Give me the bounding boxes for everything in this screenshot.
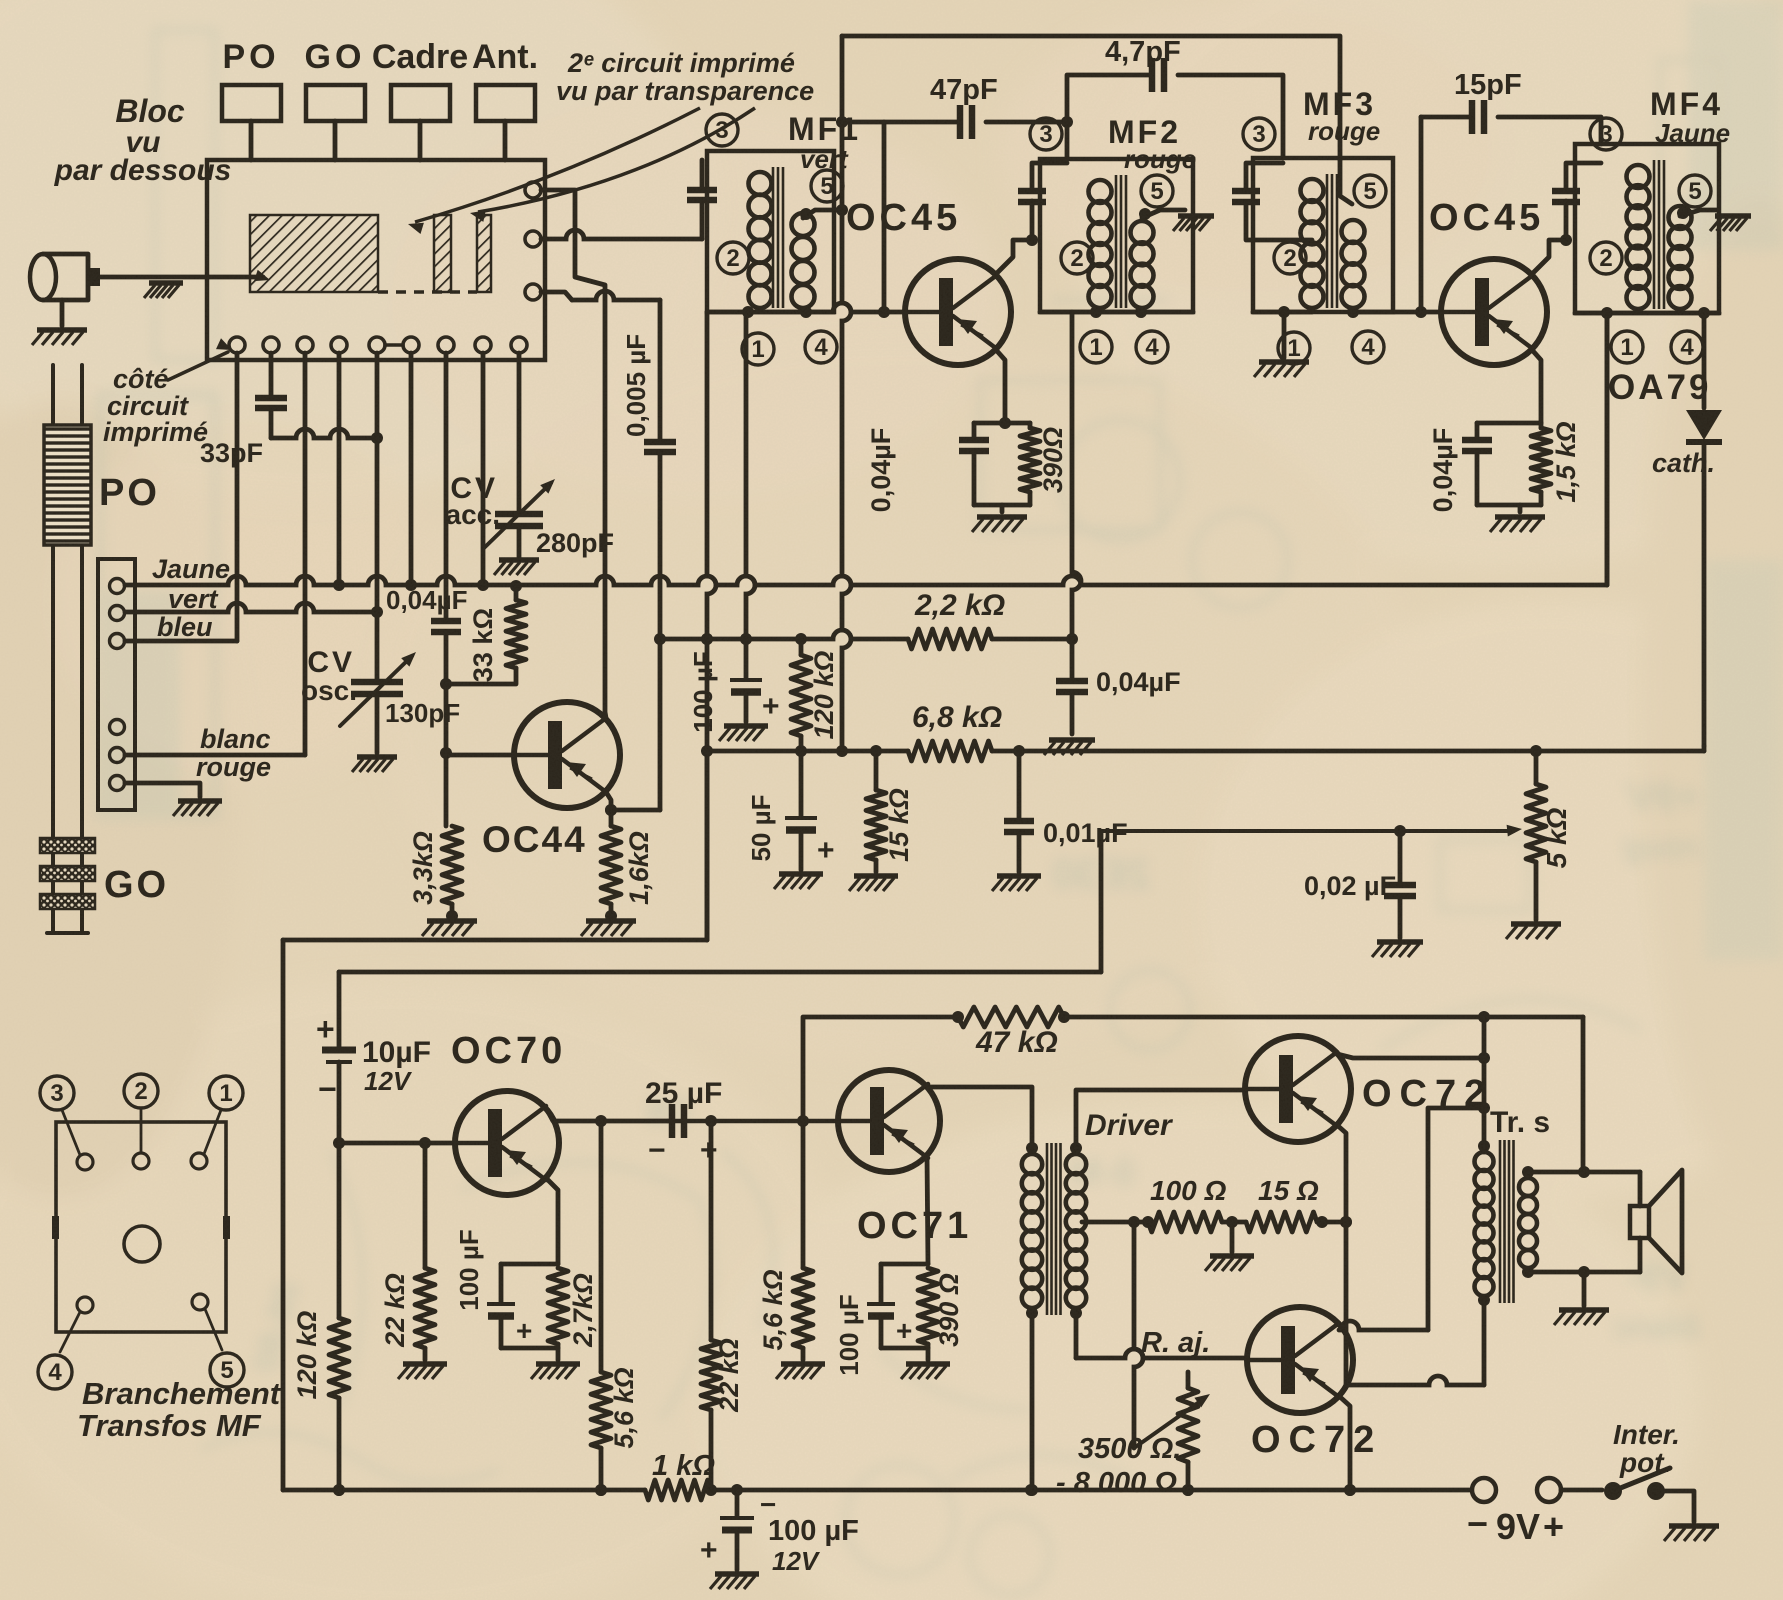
switch interrupteur: [1561, 1468, 1694, 1522]
diode OA79: [1686, 313, 1722, 746]
capacitor 0,04uF oscillator: [431, 621, 461, 632]
OC71 emitter node: [867, 1264, 938, 1360]
bias mid node: [1222, 1216, 1246, 1252]
MF1 pin1 drop to B2: [740, 312, 755, 645]
wire bleu: [125, 639, 237, 644]
pin5 circled MF2: [1141, 175, 1173, 207]
label 4,7pF: [1105, 36, 1181, 68]
label Ant. terminal: [472, 38, 538, 76]
resistor 1k: [645, 1480, 711, 1500]
label MF1: [788, 111, 861, 147]
speaker: [1630, 1170, 1682, 1273]
47k line right: [1058, 1011, 1583, 1023]
MF4 cap bottom wire: [1560, 201, 1572, 246]
label 47pF: [930, 74, 998, 106]
transistor OC70: [455, 1091, 559, 1195]
resistor 120k: [791, 639, 811, 751]
bottom rail left segment: [283, 1484, 645, 1496]
label 12V 10uF: [364, 1066, 413, 1096]
wire stem PO box to bloc: [249, 121, 254, 160]
label 6,8k: [912, 701, 1002, 734]
inset circled 5: [210, 1353, 244, 1387]
label Bloc vu par dessous: [54, 93, 232, 187]
ground 100uF: [719, 726, 768, 741]
label 390 OC71: [934, 1273, 964, 1347]
label 5,6k series: [609, 1367, 639, 1448]
wire vert: [125, 603, 383, 618]
ferrite rod: [47, 365, 88, 933]
47pF drop to base node: [882, 122, 887, 312]
coil GO bar 1: [40, 838, 95, 853]
label -9V+: [1467, 1503, 1564, 1547]
label 100uF OC70: [454, 1229, 484, 1310]
transformer MF4 box: [1575, 144, 1719, 313]
label MF3 rouge: [1308, 116, 1380, 146]
MF3 cap bottom wire: [1246, 202, 1312, 240]
ground 1,6k: [581, 921, 636, 936]
capacitor 0,04uF decoupling: [1056, 639, 1088, 734]
transistor OC44: [514, 702, 620, 808]
pot wiper arrow: [1101, 825, 1522, 837]
label 8000: [1056, 1467, 1177, 1499]
label jaune: [152, 554, 230, 584]
ground 15k: [849, 876, 898, 891]
MF1 cap top wire: [700, 160, 705, 189]
bloc rectangle (vu par dessous): [207, 160, 545, 360]
OC45-2 emitter node: [1462, 423, 1551, 512]
resistor 5,6k bias OC71: [793, 1121, 813, 1360]
transformer MF3 primary coil: [1301, 179, 1324, 308]
label 0,04uF OC45-1: [866, 428, 896, 513]
label 0,04uF OC45-2: [1428, 428, 1458, 513]
wire t3 down to blanc: [303, 353, 308, 755]
ground MF3 pin1: [1254, 362, 1309, 377]
resistor 15ohm: [1246, 1212, 1317, 1232]
transformer Tr.s core: [1500, 1140, 1514, 1303]
label 100uF OC71: [834, 1294, 864, 1375]
label Tr.s: [1490, 1106, 1550, 1139]
capacitor 25uF: [672, 1104, 684, 1138]
resistor 15k: [866, 745, 886, 872]
transformer Driver primary: [1022, 1142, 1042, 1319]
OC45-1 collector wire: [997, 240, 1032, 273]
R.aj drop: [1134, 1222, 1143, 1448]
ground 5,6k bias: [776, 1364, 825, 1379]
transistor OC71: [838, 1070, 940, 1172]
transformer Tr.s secondary: [1519, 1166, 1537, 1278]
label GO coil: [104, 864, 169, 906]
15pF line: [1421, 117, 1601, 144]
label MF4: [1650, 86, 1723, 122]
wire OC44 collector to bloc: [541, 190, 606, 718]
label OC71: [857, 1205, 972, 1247]
OC70 emitter wire: [546, 1178, 558, 1264]
bloc right terminals: [525, 182, 541, 300]
OC72b collector wire: [1339, 1102, 1490, 1330]
transformer MF4 core: [1654, 160, 1664, 309]
4,7pF line: [1067, 75, 1283, 158]
wire t4 down to jaune bus: [333, 353, 345, 591]
capacitor 50uF electrolytic: [785, 751, 817, 870]
label CV osc: [301, 646, 357, 706]
label 130pF: [385, 698, 460, 728]
pin1 circled MF2: [1080, 331, 1112, 363]
wire t9 down: [517, 353, 522, 513]
connector pins: [110, 579, 125, 791]
label 50uF: [746, 794, 776, 861]
wire stem GO box to bloc: [333, 121, 338, 160]
transformer Driver core: [1047, 1143, 1061, 1315]
bus B3 right segment: [992, 745, 1704, 757]
supply line1: [283, 938, 707, 943]
label Cadre terminal: [372, 38, 468, 76]
pin4 circled MF3: [1352, 331, 1384, 363]
bus jaune AVC: [125, 576, 1607, 585]
label 0,005uF: [621, 334, 651, 437]
capacitor CV osc 130pF: [340, 652, 416, 753]
label 0,01uF: [1043, 818, 1128, 848]
bus B2 right segment: [992, 633, 1078, 645]
label OC45 second: [1429, 197, 1544, 239]
resistor 22k bias OC70: [415, 1137, 435, 1360]
minus 25uF: [648, 1134, 666, 1167]
wire 33pF bus to t5: [271, 429, 383, 444]
wire t6 down to jaune bus: [405, 353, 417, 591]
label 15ohm: [1258, 1175, 1319, 1206]
capacitor CV acc 280pF: [484, 479, 555, 558]
label cath.: [1652, 448, 1715, 478]
label 100uF 12V: [768, 1515, 859, 1547]
label 1k: [652, 1450, 715, 1482]
label 100ohm: [1150, 1175, 1226, 1206]
rail drop x842 to B3: [836, 36, 851, 757]
hatched area 1 (circuit imprime): [250, 215, 378, 292]
ground under jack: [32, 330, 87, 345]
ground OC71 emitter: [901, 1364, 950, 1379]
label 2,7k: [568, 1273, 598, 1348]
ground speaker line: [1554, 1272, 1609, 1325]
MF3 rail to secondary top: [1340, 160, 1352, 204]
coil GO bar 2: [40, 866, 95, 881]
MF2 cap bottom wire: [1026, 201, 1038, 246]
label 3,3k: [408, 831, 438, 905]
15pF drop to OC45-2 base: [1415, 117, 1427, 318]
wire emitter node: [605, 804, 617, 816]
label 12V rail: [772, 1546, 821, 1576]
inset pin 2: [133, 1110, 149, 1169]
inset pin 3: [62, 1110, 93, 1170]
capacitor 4,7pF: [1152, 58, 1164, 92]
label 25uF: [645, 1077, 722, 1110]
MF3 bottom line right to OC45-2: [1347, 306, 1440, 318]
MF2 pin5 ground: [1173, 216, 1214, 231]
transformer MF1 core: [773, 167, 783, 308]
label GO terminal: [305, 38, 366, 76]
label 1,5k: [1551, 421, 1581, 502]
MF2 bottom line: [1040, 306, 1193, 318]
label 22k OC70: [380, 1273, 410, 1348]
resistor 33k: [446, 580, 526, 684]
label 390ohm: [1038, 427, 1068, 493]
25uF line: [595, 1115, 838, 1127]
plus 10uF: [316, 1011, 335, 1047]
resistor 22k series: [701, 1121, 721, 1496]
capacitor 100uF 12V: [720, 1490, 754, 1570]
ground jack small: [144, 283, 183, 298]
OC72a emitter to Tr.s bottom: [1346, 1300, 1484, 1385]
ground 0,02uF: [1372, 942, 1423, 957]
OA79 to detector bus: [1702, 746, 1707, 751]
resistor 3,3k: [442, 826, 462, 922]
ground 0,01uF: [992, 876, 1041, 891]
label MF2 rouge: [1124, 144, 1196, 174]
OC70 base wire: [333, 1137, 455, 1149]
MF2 tuning capacitor: [1018, 191, 1046, 202]
pin2 circled MF4: [1590, 242, 1622, 274]
pin4 circled MF1: [805, 331, 837, 363]
ground 22k OC70: [398, 1364, 447, 1379]
transistor OC45 first: [905, 259, 1011, 365]
transistor OC45 second: [1441, 259, 1547, 365]
AF line2: [339, 970, 1101, 975]
label 22k series: [714, 1338, 744, 1413]
wire OC44 base: [446, 753, 513, 758]
label OC72 top: [1362, 1073, 1493, 1115]
label 5,6k bias: [758, 1269, 788, 1350]
capacitor 100uF electrolytic: [730, 639, 762, 722]
label OA79: [1608, 368, 1711, 407]
pin3 circled MF2: [1030, 118, 1062, 150]
pin2 circled MF1: [717, 242, 749, 274]
plus 25uF: [700, 1134, 718, 1167]
label blanc: [200, 724, 271, 754]
label 33k: [468, 608, 498, 682]
label OC44: [482, 819, 587, 860]
label PO terminal: [222, 38, 279, 76]
label 0,04uF decoupling: [1096, 667, 1181, 697]
pin4 circled MF2: [1136, 331, 1168, 363]
OC45-1 emitter wire: [997, 351, 1005, 423]
arrow cote to bloc corner: [168, 338, 232, 380]
inset circled 1: [209, 1076, 243, 1110]
wire t8 down to jaune bus: [477, 353, 489, 591]
transformer MF4 secondary coil: [1669, 206, 1692, 309]
resistor 47k: [958, 1007, 1064, 1027]
pin3 circled MF3: [1243, 118, 1275, 150]
label Inter pot: [1613, 1419, 1680, 1478]
resistor 1,6k: [601, 826, 621, 922]
top rail (OC45-1 neutralising): [842, 36, 1340, 160]
label MF2: [1108, 114, 1181, 150]
OC72a emitter wire: [1337, 1125, 1352, 1385]
ground switch: [1664, 1526, 1719, 1541]
wire stem Ant box to bloc: [503, 121, 508, 160]
wire t5 down to CV osc: [375, 353, 380, 681]
inset circled 3: [40, 1076, 74, 1110]
label vert: [168, 584, 219, 614]
transformer MF2 secondary coil: [1131, 221, 1154, 308]
inset pin 4: [60, 1297, 93, 1352]
OC70 emitter node: [487, 1264, 568, 1360]
MF1 box-left drop to B2/B3: [701, 312, 716, 940]
resistor 6,8k: [908, 741, 992, 761]
label MF1 vert: [800, 144, 849, 174]
label 0,02uF: [1304, 871, 1396, 901]
MF4 pin1 drop to jaune bus: [1605, 313, 1610, 585]
MF2 pin5 ground wire: [1139, 208, 1185, 220]
OC45-2 collector wire: [1533, 240, 1566, 273]
OC70 collector wire: [546, 1108, 668, 1121]
label 5k: [1541, 807, 1572, 868]
pin5 circled MF4: [1679, 175, 1711, 207]
Driver sec tap to bias: [1082, 1216, 1154, 1228]
inset side tab left: [52, 1216, 59, 1239]
pin1 circled MF1: [742, 333, 774, 365]
inset circled 2: [124, 1074, 158, 1108]
bias to emitter line: [1316, 1216, 1352, 1228]
label 2,2k: [914, 589, 1005, 622]
inset side tab right: [223, 1216, 230, 1239]
dashed line under hatch areas: [378, 290, 477, 294]
label R.aj: [1141, 1327, 1210, 1359]
ground 5k: [1506, 924, 1561, 939]
label 1,6k: [624, 831, 654, 905]
OC45-1 emitter node: [959, 417, 1040, 512]
ground OC45-2 emitter: [1490, 517, 1545, 532]
47k riser to speaker line: [1581, 1017, 1586, 1172]
MF4 pin5 ground: [1710, 216, 1751, 231]
OC45-2 emitter wire: [1533, 351, 1541, 423]
ground CV acc: [494, 560, 539, 575]
bus B2 left segment: [660, 630, 908, 645]
hatched area 3: [477, 215, 491, 292]
coil PO on rod: [44, 425, 91, 545]
ground 3,3k: [422, 921, 477, 936]
arrow to hatched area 1: [408, 108, 700, 234]
OC71 collector wire: [927, 1087, 1032, 1148]
B3 corner drop: [705, 751, 710, 940]
label 47k: [975, 1026, 1058, 1059]
capacitor 0,005uF: [611, 300, 676, 810]
ground 50uF: [774, 874, 823, 889]
transformer MF4 primary coil: [1627, 165, 1650, 309]
resistor 100ohm: [1148, 1212, 1222, 1232]
label 120k: [809, 651, 839, 740]
OC72b emitter wire: [1339, 1396, 1356, 1496]
inset box: [56, 1122, 226, 1332]
pin5 circled MF3: [1354, 175, 1386, 207]
transformer MF2 primary coil: [1089, 180, 1112, 308]
transformer MF3 secondary coil: [1342, 220, 1365, 308]
pin2 circled MF3: [1274, 242, 1306, 274]
transformer MF2 core: [1116, 175, 1126, 308]
transformer MF1 box: [707, 151, 834, 312]
47pF line: [842, 116, 1073, 159]
label OC45 first: [846, 197, 961, 239]
MF4 cap top wire: [1566, 163, 1601, 190]
pin4 circled MF4: [1671, 331, 1703, 363]
terminal box Ant: [476, 85, 535, 121]
Tr.s secondary top line: [1528, 1166, 1640, 1178]
Driver sec top to OC72a base: [1076, 1090, 1245, 1148]
bus B3 left segment: [707, 745, 908, 757]
ground CV osc: [352, 757, 397, 772]
label 100uF: [688, 651, 718, 732]
transformer MF3 box: [1253, 158, 1393, 312]
label 0,04uF osc: [386, 585, 467, 615]
battery terminal plus: [1537, 1478, 1561, 1502]
plus 100uF: [762, 690, 780, 723]
inset pin 5: [192, 1294, 222, 1350]
label 10uF: [362, 1036, 431, 1069]
OC71 emitter wire: [927, 1156, 928, 1264]
label 120k OC70: [292, 1311, 322, 1400]
label MF3: [1303, 86, 1376, 122]
ground 100uF 12V: [710, 1574, 759, 1589]
MF2 cap top wire: [1032, 163, 1067, 190]
ground rouge: [173, 801, 222, 816]
wire jack body down: [60, 300, 65, 326]
terminal box PO: [222, 85, 281, 121]
label bleu: [157, 612, 213, 642]
earpiece jack symbol: [30, 254, 100, 300]
bus jaune right riser: [1605, 313, 1610, 585]
MF3 cap top wire: [1246, 163, 1283, 190]
potentiometer 5k: [1526, 751, 1546, 920]
label Transfos MF: [77, 1408, 262, 1443]
transformer MF1 secondary coil: [792, 213, 815, 308]
MF1 tuning capacitor: [687, 190, 717, 200]
pin3 circled MF4: [1590, 118, 1622, 150]
label 33pF: [200, 438, 263, 468]
label 3500: [1078, 1433, 1181, 1465]
label Branchement: [82, 1376, 282, 1411]
resistor R.aj: [1178, 1372, 1198, 1496]
transformer MF2 box: [1040, 159, 1193, 312]
wire cap to OC44 base: [440, 632, 452, 826]
capacitor 47pF: [960, 105, 972, 139]
label 15pF: [1454, 69, 1522, 101]
terminal box Cadre: [391, 85, 450, 121]
label OC72 bottom: [1251, 1419, 1382, 1461]
ground 0,04uF decoupling: [1044, 740, 1095, 755]
pin1 circled MF4: [1611, 331, 1643, 363]
ground OC70 emitter: [531, 1364, 580, 1379]
inset center hole: [124, 1226, 160, 1262]
inset circled 4: [38, 1355, 72, 1389]
Driver sec bottom to OC72b base: [1076, 1313, 1247, 1358]
wire rouge to ground: [125, 783, 200, 797]
label 2e circuit imprime: [556, 48, 814, 106]
label 15k: [884, 788, 914, 862]
wire t7 down to cap: [444, 353, 449, 620]
MF4 bottom line: [1575, 307, 1719, 319]
wire wiper to AF line: [1099, 831, 1104, 972]
plus 100uF 12V: [700, 1534, 718, 1567]
arrow to hatched area 2: [470, 108, 755, 222]
label PO coil: [99, 472, 160, 514]
wire bloc terminal-c to feedback cap: [541, 291, 660, 300]
minus 100uF 12V: [760, 1489, 776, 1520]
wire bloc terminal-b to MF1: [541, 230, 702, 239]
transformer Tr.s primary: [1475, 1140, 1494, 1306]
MF1 cap bottom wire: [700, 200, 705, 239]
ground OC45-1 emitter: [972, 517, 1027, 532]
label 280pF: [536, 528, 614, 558]
hatched area 2: [434, 215, 451, 292]
OC72a collector wire: [1337, 1011, 1490, 1146]
MF1 bottom line to OC45-1 base: [707, 303, 903, 318]
